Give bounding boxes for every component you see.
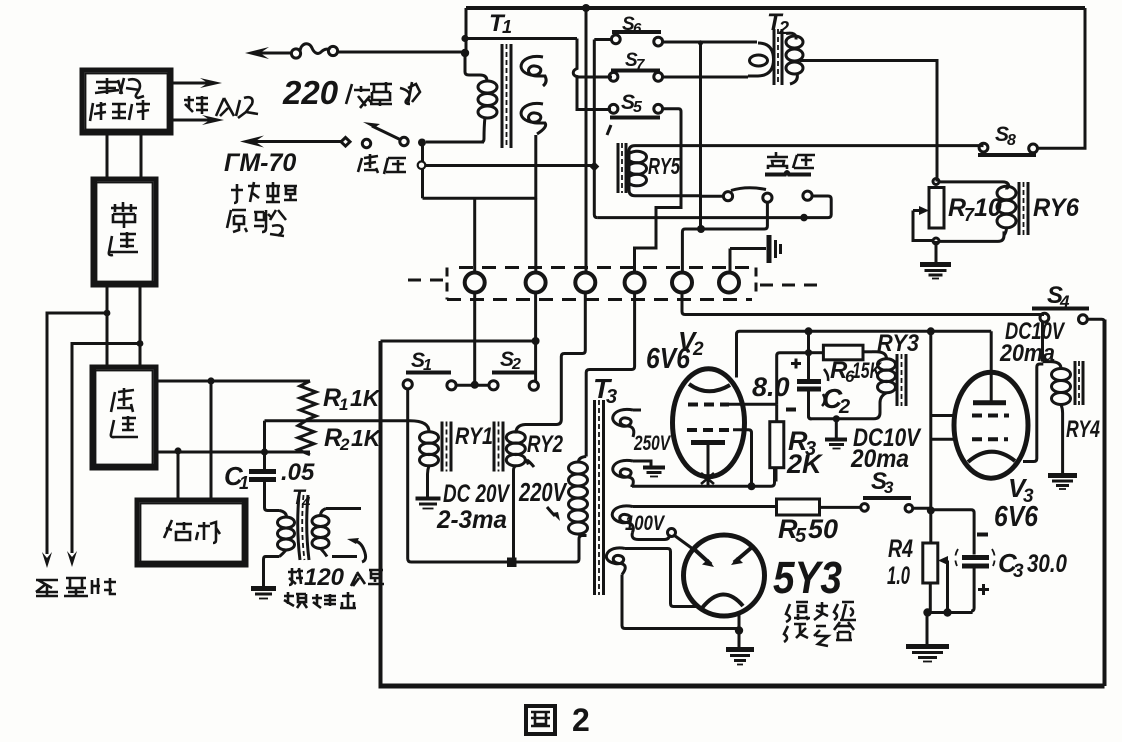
connector diamond — [341, 138, 350, 147]
T4 right coil — [321, 509, 327, 516]
box left edge — [379, 341, 383, 686]
label 迟设备 — [784, 622, 854, 646]
wires box1 to bandpass box — [107, 134, 141, 179]
wire a: down with hook to S5 — [573, 39, 611, 110]
junction circle 5Y3 plate — [668, 529, 676, 537]
wire R2 bottom to lowpass — [156, 451, 310, 454]
label 遥控延 — [786, 602, 856, 622]
wire y198 to T1 sec column — [423, 197, 537, 200]
vertical 594 from S6 — [594, 40, 597, 218]
RY2 core — [493, 422, 496, 472]
svg-text:RY5: RY5 — [648, 153, 681, 179]
wire fuse to T1 — [338, 51, 466, 54]
left plate stroke — [694, 549, 711, 565]
diagonal to 5Y3 left plate — [675, 536, 698, 553]
vertical main 586 — [585, 8, 588, 272]
loop bottom wire — [939, 231, 1004, 241]
RY5 coil — [628, 151, 647, 163]
stub sec1 — [633, 409, 641, 412]
switch S5 — [607, 91, 663, 135]
grid1 riser to C2 node — [777, 353, 809, 405]
wire sec4 bottom down and right — [622, 575, 739, 629]
T4 left coil bottom to ground — [264, 557, 280, 587]
T3 sec winding 3 — [612, 506, 633, 533]
svg-text:6V6: 6V6 — [646, 343, 691, 375]
connector circle 6 — [719, 273, 739, 293]
T4 core — [298, 495, 300, 560]
stub wires under circles — [473, 293, 476, 382]
box phone 话机 — [137, 500, 246, 565]
arrow down to 至县站 right — [67, 551, 77, 567]
ring junction at low-volt branch — [418, 161, 426, 169]
wire right contact loop to y217.6 — [804, 196, 831, 218]
svg-text:2-3ma: 2-3ma — [436, 506, 507, 534]
svg-text:3: 3 — [606, 386, 617, 408]
svg-text:220: 220 — [282, 74, 339, 111]
arrow down to 至县站 left — [42, 552, 52, 568]
label plus C3 — [978, 584, 989, 595]
T4 left coil — [280, 511, 287, 518]
vertical from S6 junction down — [699, 43, 702, 229]
svg-text:30.0: 30.0 — [1027, 550, 1067, 578]
wire S7 left — [578, 76, 612, 79]
resistor R1 zigzag — [300, 381, 316, 420]
RY1 ground — [416, 474, 441, 509]
svg-text:1: 1 — [339, 395, 348, 414]
plug circle right — [328, 46, 337, 55]
boxed char 圖 — [526, 706, 555, 734]
wire S7 right to T2 — [663, 76, 748, 79]
right plate stroke — [734, 548, 751, 563]
junction dot S2 top — [532, 337, 540, 345]
wiper wire down — [946, 561, 949, 613]
label 频输出 — [284, 592, 356, 608]
switch 低压 contact a — [362, 139, 370, 147]
grid2 exit to B line — [733, 430, 752, 487]
junction dot — [735, 626, 743, 634]
switch S2 — [489, 348, 539, 390]
switch 低压 blade with arrow tip — [363, 122, 400, 140]
svg-text:RY4: RY4 — [1066, 416, 1100, 443]
RY1 core — [441, 422, 444, 472]
T1 primary bottom elbow — [481, 117, 485, 142]
resistor R6 — [823, 345, 863, 360]
label 载波接收机 — [90, 78, 150, 121]
cathode stem — [707, 443, 710, 487]
connector circle 4 — [625, 273, 645, 293]
R6 right wire into RY3 — [863, 350, 872, 353]
ground under C2 loop — [825, 440, 847, 449]
junction dot secondary line — [461, 35, 468, 42]
RY5 top line to S8 — [629, 146, 984, 151]
svg-text:RY3: RY3 — [877, 330, 920, 357]
V3 grid1 branch — [931, 414, 954, 417]
filament arc — [702, 594, 743, 608]
grid row1 dashes — [972, 414, 1009, 418]
switch S1 — [403, 349, 456, 390]
T2 primary loop — [748, 43, 774, 76]
switch 低压 contact b — [400, 137, 408, 145]
label minus C3 — [977, 533, 988, 537]
junction dot on y217.6 — [800, 214, 808, 222]
svg-text:RY1: RY1 — [455, 423, 493, 450]
wire sec2 bottom = B line y486.3 — [632, 469, 775, 487]
cathode stem to ground — [738, 613, 741, 648]
switch S7 — [609, 50, 663, 81]
loop top wire — [939, 182, 1009, 188]
connector circle 3 — [575, 273, 595, 293]
resistor R4 — [923, 543, 938, 583]
ground stem — [926, 613, 929, 645]
svg-text:120: 120 — [304, 564, 345, 591]
C2 branch vertical — [807, 331, 810, 380]
svg-text:5: 5 — [795, 525, 807, 547]
plate bar — [973, 400, 1006, 405]
wire middle contact down to y229 — [701, 202, 767, 229]
wire sec2 top to ground — [633, 461, 651, 466]
junction dots bottom — [923, 608, 931, 616]
wire S6 right to T2 — [663, 41, 757, 44]
curved annotation arrow — [347, 538, 366, 562]
RY3 bottom to loop — [874, 393, 887, 419]
wire 低压 node down — [421, 143, 424, 199]
dashed box — [459, 266, 752, 269]
wires to phone box — [210, 381, 213, 500]
label 接120伏音 — [288, 568, 303, 585]
svg-text:1: 1 — [502, 17, 512, 37]
R7 bottom node — [933, 238, 939, 244]
RY4 coil — [1043, 362, 1062, 369]
T2 tap wire to R7 column — [800, 61, 937, 182]
contact circles — [723, 192, 732, 201]
svg-text:6: 6 — [633, 20, 642, 37]
switch bar — [765, 172, 811, 175]
arrow left at 220V line — [245, 47, 292, 59]
box low-pass 低通 — [92, 367, 156, 468]
T4 right coil bottom wire — [332, 555, 357, 558]
wire S5 right down to RY5 — [663, 109, 681, 196]
junction dot R6 — [805, 349, 812, 356]
wire S1L down to bottom rail — [408, 389, 576, 562]
RY5 bottom jog to connector 4 — [635, 197, 682, 272]
wire mid junction — [263, 421, 266, 472]
svg-text:2K: 2K — [786, 449, 824, 479]
junction tick — [698, 40, 703, 45]
ground under RY4 — [1048, 476, 1077, 490]
resistor R2 zigzag — [298, 421, 314, 455]
label 低通 — [111, 388, 138, 437]
lead-in dashes — [408, 279, 446, 282]
ground under R4 — [906, 647, 949, 662]
tube envelope — [673, 369, 745, 477]
RY3 coil — [872, 352, 887, 359]
tube envelope — [954, 372, 1028, 478]
wiper arrow R7 — [913, 206, 929, 215]
svg-text:2: 2 — [339, 435, 350, 454]
svg-text:3: 3 — [884, 478, 894, 497]
T2 core — [773, 29, 776, 85]
connector circle 5 — [672, 273, 692, 293]
RY2 pointer arrow — [523, 456, 534, 467]
wire lowpass to R1 — [156, 380, 310, 383]
svg-text:RY2: RY2 — [527, 431, 563, 458]
continuation dashes — [760, 284, 822, 287]
wire T1 top to S-column — [465, 37, 577, 40]
box top wire to S2 node — [381, 340, 536, 343]
T3 sec winding 2 — [613, 460, 634, 487]
wire to left rail 1 — [47, 313, 107, 554]
box carrier-receiver 载波接收机 — [82, 70, 171, 133]
V3 grid2 branch — [931, 438, 954, 441]
RY5 core — [617, 143, 620, 193]
arrow left GM-70 — [240, 136, 342, 148]
svg-text:3: 3 — [1013, 561, 1024, 582]
junction dot screen on B line — [748, 482, 756, 490]
wire S8 right to top rail — [1038, 8, 1086, 148]
grid1 exit wire — [729, 403, 777, 406]
box right edge — [1103, 320, 1107, 687]
T3 core — [593, 400, 596, 595]
T1 core — [501, 44, 504, 148]
junction dot ground — [833, 415, 840, 422]
junction dot C2 — [805, 327, 813, 335]
ground at 250V — [643, 468, 665, 477]
diamond junction — [589, 162, 599, 172]
T1 primary feed elbow — [465, 53, 487, 81]
box bottom edge — [379, 684, 1105, 689]
R7 top node — [933, 179, 939, 185]
wire connector1 top — [473, 198, 476, 272]
wire sec4 top to 5Y3 filament — [625, 549, 700, 607]
svg-text:1K: 1K — [350, 385, 381, 411]
capacitor C1 — [249, 472, 280, 511]
svg-text:ГМ-70: ГМ-70 — [224, 149, 296, 177]
RY6 core — [1018, 182, 1021, 235]
junction dot on wire — [471, 381, 479, 389]
wire secondary bottom down — [534, 135, 537, 198]
svg-text:250V: 250V — [633, 432, 671, 455]
connector circle 1 — [465, 273, 485, 293]
bottom node wire — [927, 611, 973, 614]
label 输入级 — [184, 96, 258, 118]
cathode bar — [691, 440, 725, 445]
grid row1 dashes — [688, 403, 729, 407]
svg-text:6V6: 6V6 — [994, 501, 1039, 533]
svg-text:2: 2 — [572, 702, 590, 738]
ground under T4 — [251, 589, 276, 599]
switch S6 — [611, 14, 662, 46]
square junction RY2 bottom — [507, 558, 517, 568]
wire left contact — [701, 195, 724, 198]
R4 wiper arrow — [938, 556, 948, 565]
T1 primary coil — [478, 81, 497, 93]
wiper bypass wire — [913, 211, 933, 241]
junction dot — [697, 225, 705, 233]
wire R5 to S3 — [820, 506, 862, 509]
T1 secondary upper coil — [521, 56, 546, 86]
cathode right wire — [1023, 364, 1043, 462]
ground stem — [835, 419, 838, 438]
switch S3 — [861, 468, 913, 512]
S4 right wire to box edge — [1087, 319, 1104, 322]
svg-text:10: 10 — [974, 194, 1002, 222]
plate wire from top line — [737, 331, 740, 377]
svg-text:2: 2 — [778, 18, 789, 38]
grid row2 dashes — [972, 437, 1008, 441]
feed wire y420.7 — [265, 419, 411, 422]
junction dot after switch — [418, 139, 426, 147]
svg-text:50: 50 — [808, 514, 838, 544]
vertical V3 grid / R4 — [929, 331, 932, 543]
svg-text:2: 2 — [511, 356, 521, 373]
label 高压 — [767, 152, 815, 169]
wire S1R-S2L — [456, 384, 489, 387]
RY4 bottom stem — [1061, 413, 1064, 474]
label 源部分 — [227, 210, 286, 236]
T3 primary coil — [578, 457, 586, 464]
riser to T3 primary bottom — [576, 536, 587, 563]
line y217.6 from 594 — [597, 216, 804, 219]
svg-text:R4: R4 — [888, 535, 913, 563]
grid row2 dashes — [687, 428, 733, 432]
svg-text:DC 20V: DC 20V — [443, 480, 511, 508]
RY5 left+bottom — [629, 151, 701, 196]
R6 left wire — [809, 351, 824, 354]
top inner arc — [689, 384, 730, 391]
R4 bottom stem — [929, 583, 932, 613]
label 至县站 — [36, 578, 116, 596]
junction dot right column — [137, 340, 144, 347]
fuse S-curve — [300, 44, 330, 54]
svg-text:1: 1 — [239, 473, 249, 493]
capacitor C3 — [934, 510, 995, 611]
svg-text:RY6: RY6 — [1033, 194, 1080, 222]
R3 top stem — [775, 404, 778, 422]
svg-text:1K: 1K — [351, 425, 382, 451]
label minus — [786, 408, 796, 412]
wire y229 corner to connector5 — [682, 229, 701, 272]
connector circle 2 — [526, 273, 546, 293]
RY4 core — [1074, 361, 1077, 405]
svg-text:1.0: 1.0 — [887, 562, 910, 590]
tube circle — [684, 535, 765, 616]
resistor R5 — [777, 499, 820, 515]
resistor R3 — [770, 422, 784, 468]
junction dots on y452 — [174, 447, 181, 454]
svg-text:2: 2 — [692, 339, 704, 360]
capacitor C2 — [797, 369, 828, 419]
svg-text:2: 2 — [838, 396, 850, 418]
left drop of rail to fuse node — [465, 8, 468, 53]
wire sec3 bottom to junction — [632, 533, 669, 540]
wire sec3 top to R5 — [633, 505, 777, 508]
label 话机 — [164, 520, 220, 543]
ground under R7 — [920, 241, 951, 279]
junction dot left column — [104, 310, 111, 317]
wire y165.5 to S-col — [423, 164, 593, 167]
plate stem — [990, 331, 993, 401]
line y331.3 — [740, 330, 992, 333]
arrow to 输入级 upper — [172, 78, 222, 88]
loop bottom wire — [809, 416, 875, 419]
wire to T1 primary bottom — [426, 141, 484, 144]
T3 sec winding 1 — [613, 409, 634, 437]
wire S3 to node — [913, 507, 931, 510]
box band-pass 带通 — [93, 179, 156, 285]
RY2 bottom wire — [512, 470, 515, 559]
cathode arc — [968, 452, 1015, 462]
220V pointer arrow — [547, 507, 560, 521]
label 带通 — [109, 202, 138, 255]
S6 stub — [594, 38, 611, 41]
ground under 5Y3 — [726, 650, 754, 665]
RY3 core — [896, 354, 899, 406]
RY1 coil — [410, 421, 429, 432]
crossing ticks — [701, 473, 714, 484]
RY6 coil — [997, 186, 1016, 200]
label + — [791, 359, 801, 369]
svg-text:8.0: 8.0 — [752, 372, 790, 402]
label 低压 — [358, 154, 406, 174]
junction dot phone col — [207, 377, 214, 384]
S4 left down to RY4 — [1041, 322, 1044, 362]
svg-text:5Y3: 5Y3 — [773, 552, 842, 603]
blade — [731, 188, 766, 191]
resistor R7 — [929, 188, 944, 229]
plug circle left — [291, 49, 300, 58]
wire connector2 top — [534, 198, 537, 273]
label 扩音机电 — [231, 182, 297, 203]
T1 secondary lower coil — [521, 103, 546, 134]
R3 bottom stem — [775, 468, 778, 482]
junction dot top rail — [582, 4, 590, 12]
arrow to 输入级 lower — [173, 115, 224, 125]
svg-text:8: 8 — [1007, 132, 1016, 149]
junction dot S3 node — [927, 506, 935, 514]
svg-text:5: 5 — [633, 99, 643, 116]
top rail — [466, 6, 1085, 10]
RY2 coil — [516, 420, 562, 434]
T4 right coil top wire — [326, 507, 361, 510]
wires bandpass to lowpass — [107, 285, 140, 367]
wire to left rail 2 — [72, 344, 140, 554]
svg-text:220V: 220V — [518, 477, 568, 507]
T3 sec winding 4 — [606, 548, 625, 575]
junction dot V3 grid — [927, 327, 935, 335]
junction dot fuse node — [461, 49, 469, 57]
T2 secondary — [786, 33, 796, 39]
wire S2R up — [534, 341, 537, 381]
svg-text:.05: .05 — [281, 459, 315, 486]
